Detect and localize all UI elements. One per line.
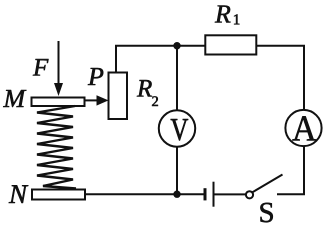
voltmeter V bbox=[159, 110, 195, 146]
wire top: R2 riser to R1 left bbox=[116, 46, 205, 73]
label N bbox=[9, 185, 29, 203]
switch S bbox=[252, 175, 283, 193]
label F bbox=[33, 59, 49, 75]
wire: battery to bottom junction bbox=[177, 193, 204, 195]
wire: R1 right to ammeter top bbox=[256, 46, 304, 110]
node top junction bbox=[173, 42, 180, 49]
wire: voltmeter branch lower bbox=[176, 146, 178, 194]
spring bbox=[37, 106, 76, 189]
resistor R1 bbox=[205, 35, 256, 54]
wiper P arrow bbox=[85, 99, 100, 101]
force arrow F bbox=[58, 41, 60, 86]
label R1 bbox=[215, 6, 231, 23]
label R2 bbox=[137, 80, 152, 96]
plate N bbox=[32, 190, 85, 200]
label M bbox=[3, 90, 26, 107]
battery bbox=[213, 182, 215, 207]
wire: bottom junction to plate N bbox=[85, 193, 177, 195]
wire: voltmeter branch upper bbox=[176, 46, 178, 111]
wire: ammeter bottom to switch right stub bbox=[277, 146, 304, 194]
rheostat R2 bbox=[109, 73, 128, 120]
label S bbox=[260, 203, 272, 223]
label P bbox=[88, 68, 103, 85]
node bottom junction bbox=[173, 191, 180, 198]
ammeter A bbox=[285, 110, 321, 146]
plate M bbox=[32, 98, 85, 107]
wire: switch to battery bbox=[215, 193, 246, 195]
